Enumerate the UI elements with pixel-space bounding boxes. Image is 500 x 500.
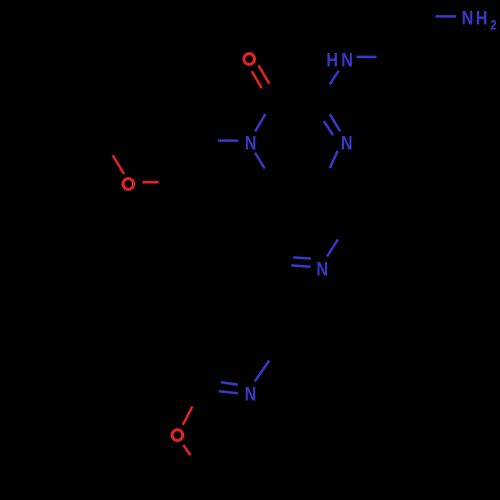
svg-text:H: H	[326, 49, 338, 71]
svg-text:N: N	[245, 132, 257, 154]
svg-text:N: N	[462, 7, 474, 29]
svg-text:2: 2	[490, 17, 496, 33]
svg-text:H: H	[476, 7, 488, 29]
svg-text:N: N	[245, 383, 257, 405]
svg-text:N: N	[341, 49, 353, 71]
svg-text:N: N	[316, 258, 328, 280]
svg-text:N: N	[341, 132, 353, 154]
